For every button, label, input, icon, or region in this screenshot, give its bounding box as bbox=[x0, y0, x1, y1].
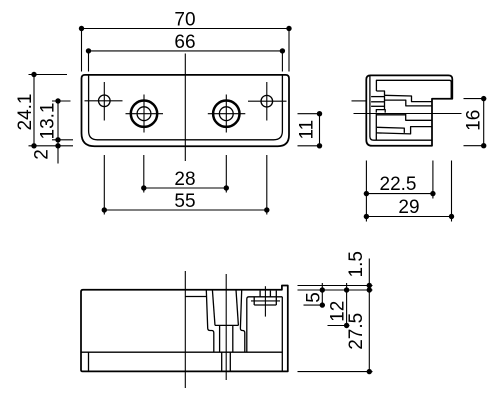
funnel slot walls bbox=[219, 325, 221, 352]
bottom view left step bbox=[88, 352, 90, 371]
dimension 55 bbox=[102, 155, 270, 215]
pocket outline bbox=[247, 297, 282, 352]
side view inner left wall and bottom bbox=[370, 76, 432, 141]
serration block bbox=[254, 291, 276, 305]
svg-text:29: 29 bbox=[398, 197, 419, 218]
bottom view right wall inner face bbox=[281, 297, 283, 372]
svg-text:5: 5 bbox=[304, 292, 325, 303]
funnel outer right wall bbox=[240, 290, 244, 352]
dimension 29 bbox=[364, 161, 455, 222]
front view outline bbox=[82, 75, 290, 146]
svg-text:27.5: 27.5 bbox=[346, 313, 367, 350]
svg-text:2: 2 bbox=[32, 149, 53, 160]
funnel inner left wall bbox=[212, 290, 215, 326]
svg-text:28: 28 bbox=[174, 169, 195, 190]
dimension 28 bbox=[141, 155, 229, 193]
dimension 70 bbox=[79, 10, 292, 72]
side view clip hook bbox=[376, 91, 384, 95]
side view large-hole centerline bbox=[354, 113, 462, 115]
small hole left bbox=[85, 82, 123, 121]
side view small-hole centerline stub bbox=[352, 100, 366, 102]
bottom view outline bbox=[81, 286, 288, 372]
side view clip body bbox=[376, 114, 432, 141]
dimension 12 bbox=[327, 283, 349, 328]
bottom view centerline bbox=[184, 271, 186, 388]
dimension 16 bbox=[464, 96, 487, 148]
dimension 66 bbox=[86, 32, 285, 72]
front view inner flange line bbox=[89, 75, 283, 140]
side view teeth bbox=[371, 95, 385, 112]
large hole right bbox=[208, 95, 246, 133]
dimension 1.5 and 27.5 shared line bbox=[298, 251, 373, 374]
dimension 13.1 bbox=[38, 98, 74, 163]
serration crosshair bbox=[251, 286, 280, 316]
dimension 24.1 bbox=[15, 72, 73, 149]
svg-text:16: 16 bbox=[464, 110, 485, 131]
svg-text:70: 70 bbox=[174, 10, 195, 31]
svg-text:11: 11 bbox=[297, 120, 318, 140]
front view centerline bbox=[184, 54, 186, 162]
bottom view base strip line bbox=[81, 351, 282, 353]
funnel outer left wall bbox=[206, 290, 214, 352]
dimension 5 bbox=[304, 283, 326, 308]
side view clip lower zigzag bbox=[385, 100, 432, 106]
svg-text:66: 66 bbox=[174, 32, 195, 53]
small hole right bbox=[248, 82, 287, 121]
svg-text:13.1: 13.1 bbox=[38, 103, 59, 140]
dimension 22.5 bbox=[364, 161, 436, 222]
svg-text:22.5: 22.5 bbox=[380, 174, 417, 195]
svg-text:24.1: 24.1 bbox=[15, 94, 36, 131]
side view inner top bar bbox=[376, 80, 451, 98]
side view clip upper zigzag bbox=[384, 95, 431, 101]
dimension 2 bbox=[32, 149, 53, 160]
svg-text:55: 55 bbox=[174, 191, 195, 212]
large hole left bbox=[126, 95, 164, 133]
funnel flat bottom bbox=[215, 324, 238, 326]
bottom view center step line bbox=[185, 296, 206, 298]
funnel centerline bbox=[225, 274, 227, 380]
funnel inner right wall bbox=[236, 290, 238, 326]
svg-text:12: 12 bbox=[327, 301, 348, 322]
side view outer outline bbox=[366, 75, 452, 145]
narrow slot walls bbox=[221, 352, 223, 371]
dimension 11 bbox=[297, 111, 323, 149]
svg-text:1.5: 1.5 bbox=[346, 251, 367, 277]
